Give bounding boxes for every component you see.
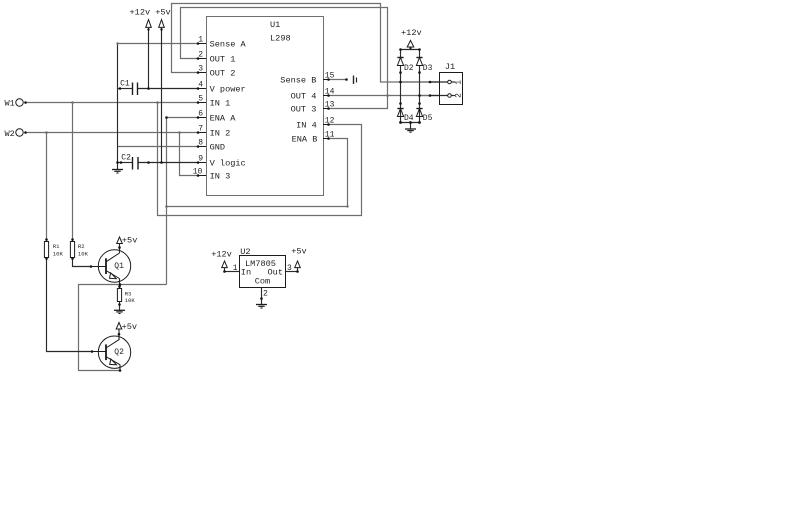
svg-text:J1: J1 bbox=[445, 62, 455, 72]
svg-text:D2: D2 bbox=[404, 64, 414, 73]
svg-text:10: 10 bbox=[193, 168, 203, 177]
svg-text:V logic: V logic bbox=[210, 158, 246, 168]
svg-text:W2: W2 bbox=[5, 129, 15, 139]
svg-text:Sense B: Sense B bbox=[280, 75, 316, 85]
svg-text:13: 13 bbox=[325, 101, 335, 110]
svg-text:10K: 10K bbox=[53, 250, 64, 257]
svg-text:11: 11 bbox=[325, 131, 335, 140]
svg-text:10K: 10K bbox=[78, 250, 89, 257]
svg-text:6: 6 bbox=[198, 110, 203, 119]
svg-text:ENA B: ENA B bbox=[292, 134, 318, 144]
svg-text:V power: V power bbox=[210, 84, 246, 94]
svg-text:OUT 4: OUT 4 bbox=[291, 91, 317, 101]
svg-text:2: 2 bbox=[455, 93, 464, 98]
svg-text:IN 3: IN 3 bbox=[210, 171, 231, 181]
svg-text:14: 14 bbox=[325, 88, 335, 97]
svg-text:1: 1 bbox=[455, 80, 464, 85]
svg-text:15: 15 bbox=[325, 72, 335, 81]
svg-text:Sense A: Sense A bbox=[210, 39, 247, 49]
svg-text:5: 5 bbox=[198, 95, 203, 104]
svg-text:C2: C2 bbox=[121, 154, 131, 163]
svg-text:W1: W1 bbox=[5, 98, 15, 108]
svg-text:Com: Com bbox=[255, 277, 270, 287]
svg-text:3: 3 bbox=[287, 264, 292, 273]
svg-text:L298: L298 bbox=[270, 33, 291, 43]
svg-text:D5: D5 bbox=[423, 114, 433, 123]
svg-text:+12v: +12v bbox=[401, 28, 422, 38]
svg-text:10K: 10K bbox=[125, 297, 136, 304]
svg-text:D3: D3 bbox=[423, 64, 433, 73]
svg-text:+5v: +5v bbox=[122, 236, 137, 246]
svg-text:Q2: Q2 bbox=[114, 348, 124, 357]
svg-text:U1: U1 bbox=[270, 20, 280, 30]
svg-text:GND: GND bbox=[210, 142, 225, 152]
svg-text:4: 4 bbox=[198, 81, 203, 90]
svg-text:IN 2: IN 2 bbox=[210, 128, 231, 138]
svg-text:ENA A: ENA A bbox=[210, 113, 237, 123]
svg-text:C1: C1 bbox=[120, 79, 130, 88]
svg-text:+5v: +5v bbox=[155, 8, 170, 18]
svg-text:Q1: Q1 bbox=[114, 262, 124, 271]
svg-text:7: 7 bbox=[198, 125, 203, 134]
svg-text:+5v: +5v bbox=[122, 322, 137, 332]
svg-text:R1: R1 bbox=[53, 243, 60, 250]
svg-text:OUT 1: OUT 1 bbox=[210, 54, 236, 64]
svg-text:+12v: +12v bbox=[211, 250, 232, 260]
svg-text:2: 2 bbox=[198, 51, 203, 60]
svg-text:+12v: +12v bbox=[130, 8, 151, 18]
svg-text:3: 3 bbox=[198, 65, 203, 74]
svg-text:U2: U2 bbox=[240, 247, 250, 257]
svg-text:12: 12 bbox=[325, 117, 335, 126]
svg-text:OUT 3: OUT 3 bbox=[291, 104, 317, 114]
svg-text:OUT 2: OUT 2 bbox=[210, 68, 236, 78]
svg-text:+5v: +5v bbox=[291, 247, 306, 257]
svg-text:2: 2 bbox=[263, 290, 268, 299]
svg-text:9: 9 bbox=[198, 155, 203, 164]
svg-text:1: 1 bbox=[233, 264, 238, 273]
svg-text:8: 8 bbox=[198, 139, 203, 148]
svg-text:In: In bbox=[241, 268, 251, 278]
svg-text:R2: R2 bbox=[78, 243, 85, 250]
svg-text:IN 1: IN 1 bbox=[210, 98, 231, 108]
svg-text:1: 1 bbox=[198, 36, 203, 45]
svg-text:IN 4: IN 4 bbox=[296, 120, 317, 130]
svg-text:D4: D4 bbox=[404, 114, 414, 123]
